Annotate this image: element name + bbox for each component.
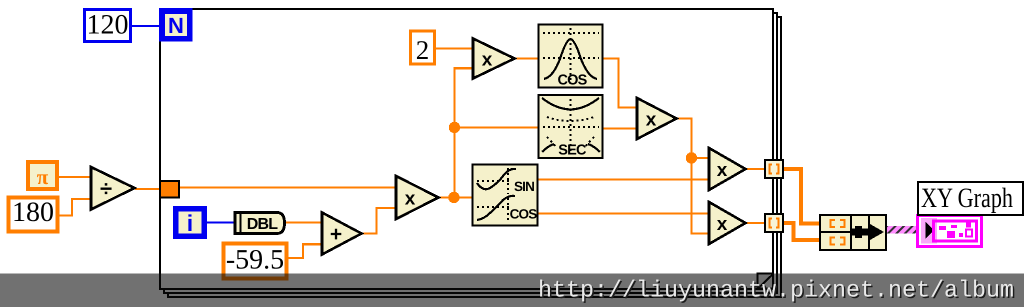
svg-text:+: + — [330, 223, 342, 246]
svg-text:SIN: SIN — [514, 179, 534, 194]
svg-text:DBL: DBL — [247, 216, 279, 233]
svg-text:http://liuyunantw.pixnet.net/a: http://liuyunantw.pixnet.net/album — [538, 278, 1014, 305]
svg-text:N: N — [168, 13, 184, 38]
svg-text:x: x — [405, 189, 416, 210]
svg-text:x: x — [646, 110, 657, 131]
svg-text:2: 2 — [416, 35, 430, 65]
svg-text:120: 120 — [87, 10, 129, 41]
svg-text:COS: COS — [510, 207, 538, 222]
svg-text:x: x — [717, 214, 728, 235]
svg-text:÷: ÷ — [100, 176, 112, 201]
svg-text:XY Graph: XY Graph — [921, 183, 1013, 214]
svg-text:SEC: SEC — [558, 143, 587, 159]
svg-text:π: π — [37, 165, 49, 189]
svg-text:180: 180 — [12, 197, 54, 228]
svg-text:i: i — [187, 210, 193, 236]
svg-text:COS: COS — [557, 73, 587, 89]
svg-text:x: x — [717, 160, 728, 181]
svg-text:-59.5: -59.5 — [226, 245, 284, 276]
svg-text:x: x — [482, 50, 493, 71]
